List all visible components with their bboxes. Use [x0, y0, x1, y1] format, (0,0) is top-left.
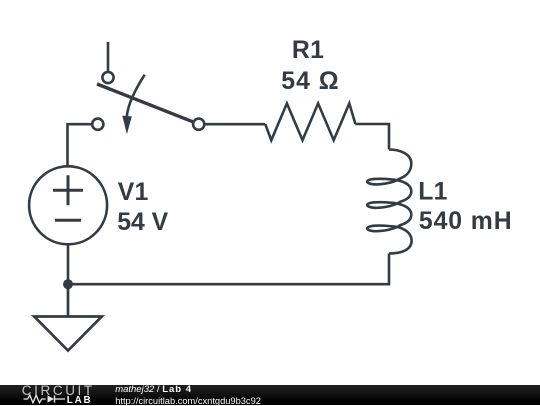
svg-text:L1: L1	[418, 179, 448, 206]
svg-text:R1: R1	[292, 37, 324, 64]
svg-text:54 V: 54 V	[117, 209, 168, 236]
svg-text:54 Ω: 54 Ω	[281, 68, 339, 95]
svg-text:V1: V1	[118, 179, 149, 206]
svg-text:540 mH: 540 mH	[419, 208, 513, 235]
